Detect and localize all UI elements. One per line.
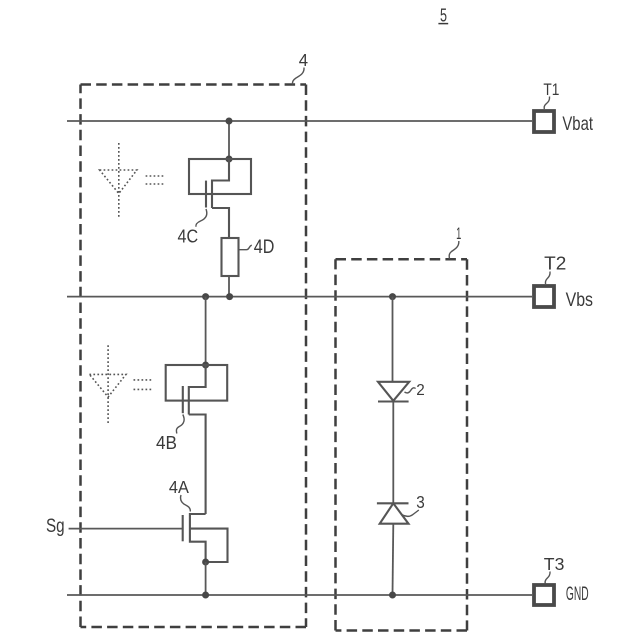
svg-text:2: 2 [416, 382, 425, 399]
node junction Vbs/diode branch [389, 293, 396, 300]
svg-text:GND: GND [566, 584, 589, 605]
terminal T3 square [534, 585, 554, 605]
svg-text:4D: 4D [254, 237, 275, 258]
wire diode 2 to diode 3 [392, 402, 394, 504]
svg-text:4B: 4B [156, 433, 177, 453]
label 4D [239, 237, 275, 258]
label 3 [402, 492, 425, 516]
svg-text:T2: T2 [544, 253, 566, 274]
svg-text:1: 1 [456, 224, 461, 243]
label T3 [544, 554, 565, 584]
svg-text:T1: T1 [543, 80, 559, 99]
terminal T2 square [534, 286, 554, 307]
wire Sg input line [69, 528, 183, 530]
terminal T1 square [534, 111, 554, 132]
svg-text:5: 5 [440, 6, 447, 26]
transistor 4C [189, 159, 251, 238]
svg-text:Sg: Sg [46, 516, 65, 537]
wire Vbat bus line [67, 120, 532, 122]
svg-text:4C: 4C [178, 227, 199, 248]
transistor 4B [166, 365, 228, 514]
wire 4A source to GND [205, 562, 207, 595]
label T2 [544, 253, 566, 285]
node junction GND/4A [202, 592, 209, 599]
svg-text:3: 3 [416, 492, 425, 512]
label 4C [178, 209, 207, 248]
parasitic antenna symbol lower (dotted) [89, 345, 152, 423]
svg-text:Vbat: Vbat [562, 114, 593, 135]
node junction 4A source/body [202, 559, 209, 566]
label 4 [293, 50, 309, 85]
figure number 5 label [438, 6, 448, 26]
wire Vbs to transistor 4B [205, 297, 207, 365]
label 4B [156, 415, 184, 453]
svg-text:4: 4 [299, 50, 309, 70]
label 4A [169, 477, 190, 511]
dashed box 4 (circuit block 4) [81, 85, 307, 628]
node junction 4C body [226, 156, 233, 163]
parasitic antenna symbol upper (dotted) [100, 143, 165, 217]
wire Vbat to transistor 4C drain [228, 121, 230, 159]
label 1 [449, 224, 461, 259]
node junction Vbat/4C [226, 118, 233, 125]
resistor 4D [222, 238, 239, 297]
node junction Vbs/4D [226, 293, 233, 300]
node junction 4B body [202, 362, 209, 369]
wire diode 3 to GND [392, 524, 395, 595]
svg-text:Vbs: Vbs [566, 289, 593, 311]
wire Vbs bus line [67, 296, 532, 298]
label 2 [405, 382, 425, 399]
transistor 4A [183, 514, 228, 562]
dashed box 1 (circuit block 1) [336, 259, 468, 630]
diode 3 [377, 503, 409, 523]
svg-text:4A: 4A [169, 477, 189, 497]
svg-text:T3: T3 [544, 554, 565, 574]
label T1 [543, 80, 559, 109]
wire GND bus line [67, 594, 532, 596]
node junction GND/diode branch [389, 592, 396, 599]
node junction Vbs/4B [202, 293, 209, 300]
diode 2 [378, 382, 409, 402]
wire Vbs to diode 2 [392, 297, 394, 382]
